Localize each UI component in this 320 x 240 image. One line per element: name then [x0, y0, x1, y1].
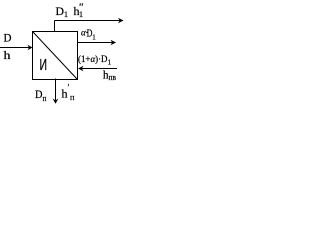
svg-text:(1+α)·D: (1+α)·D — [78, 54, 108, 65]
arrowhead of feedwater into right side of box — [78, 66, 84, 72]
arrowhead of condensate output — [53, 99, 59, 104]
svg-text:′: ′ — [68, 83, 70, 93]
svg-text:h: h — [4, 48, 11, 62]
svg-text:п: п — [43, 94, 48, 103]
wire: top output line — [55, 20, 124, 22]
evaporator box U1 — [33, 32, 78, 80]
wire: feedwater input line — [81, 68, 118, 70]
arrowhead of top output — [118, 18, 124, 24]
wire: heating steam input line — [0, 47, 30, 49]
svg-text:D: D — [4, 31, 12, 45]
svg-text:D: D — [56, 4, 65, 18]
arrowhead into left side of box — [28, 45, 33, 50]
svg-text:пв: пв — [109, 73, 117, 82]
svg-text:п: п — [70, 92, 75, 102]
diagonal of box — [33, 32, 77, 79]
svg-text:1: 1 — [108, 58, 112, 67]
arrowhead of blowdown output — [111, 40, 117, 46]
svg-text:1: 1 — [92, 34, 96, 42]
svg-text:1: 1 — [64, 10, 68, 19]
wire: riser from box top — [54, 21, 56, 32]
wire: condensate output line down — [55, 79, 57, 102]
svg-text:И: И — [40, 57, 48, 74]
wire: blowdown output line — [78, 42, 116, 44]
svg-text:1: 1 — [79, 10, 83, 19]
background — [0, 0, 131, 116]
